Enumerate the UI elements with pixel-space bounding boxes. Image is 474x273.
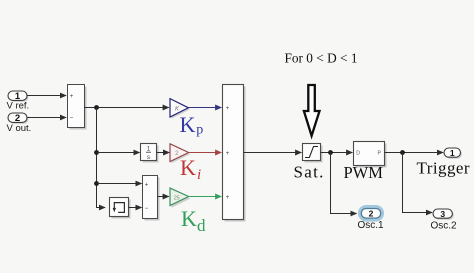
svg-text:PWM: PWM: [344, 163, 384, 182]
outport 1 (Trigger): [444, 148, 462, 159]
outport 3 (Osc.2): [433, 209, 454, 220]
svg-text:+: +: [145, 183, 149, 189]
svg-text:K: K: [181, 206, 197, 231]
wire memory to sum2 bottom input: [129, 207, 142, 209]
svg-text:d: d: [197, 216, 206, 235]
wire PWM to Trigger: [385, 152, 444, 154]
svg-text:25: 25: [174, 195, 180, 201]
svg-text:V ref.: V ref.: [7, 101, 30, 112]
svg-text:+: +: [226, 151, 230, 157]
wire sum1 output to Kp gain: [84, 107, 169, 109]
sum block S2 (derivative difference): [143, 176, 160, 221]
wire saturation to PWM: [321, 152, 353, 154]
node after saturation: [328, 150, 333, 155]
svg-text:K: K: [180, 112, 196, 137]
wire inport2 to sum1: [27, 117, 66, 119]
node after PWM: [400, 150, 405, 155]
svg-text:+: +: [70, 94, 74, 100]
label Ki: [180, 155, 201, 183]
wire inport1 to sum1: [27, 95, 66, 97]
gain Kd (triangle): [170, 188, 190, 208]
node after sum1: [94, 105, 99, 110]
annotation hollow arrow: [304, 85, 320, 136]
PWM subsystem block: [354, 142, 387, 168]
svg-text:Trigger: Trigger: [417, 159, 471, 178]
outport 2 (Osc.1, selected): [360, 207, 382, 220]
svg-text:For 0 < D < 1: For 0 < D < 1: [285, 51, 358, 66]
memory block: [110, 198, 131, 219]
svg-text:K: K: [180, 155, 196, 180]
wire sum2 to Kd gain: [158, 196, 169, 198]
svg-text:V out.: V out.: [7, 123, 32, 134]
svg-text:p: p: [196, 123, 203, 138]
wire sum3 to saturation: [244, 152, 302, 154]
svg-text:+: +: [226, 195, 230, 201]
gain Ki (triangle): [170, 144, 190, 164]
svg-text:+: +: [226, 106, 230, 112]
inport 1 (V ref.): [8, 91, 29, 102]
label Kp: [180, 112, 204, 138]
svg-text:3: 3: [440, 209, 445, 219]
svg-text:Osc.1: Osc.1: [358, 220, 385, 231]
svg-text:D: D: [356, 151, 360, 157]
wire node to Osc.2: [403, 153, 433, 213]
label Kd: [181, 206, 206, 235]
svg-text:Sat.: Sat.: [294, 163, 325, 182]
wire Ki to sum3: [189, 152, 222, 154]
sum block S3 (3-input): [223, 85, 246, 222]
wire trunk down: [97, 108, 106, 208]
svg-text:i: i: [197, 167, 201, 183]
sum block S1: [68, 85, 87, 130]
wire Kp to sum3: [188, 107, 221, 109]
gain Kp (triangle): [170, 99, 190, 119]
wire Kd to sum3: [189, 196, 222, 198]
svg-text:s: s: [147, 155, 150, 161]
wire to sum2 top input: [97, 183, 142, 185]
svg-text:Osc.2: Osc.2: [431, 221, 458, 232]
wire node to Osc.1: [331, 153, 357, 214]
inport 2 (V out.): [8, 113, 29, 124]
node to sum2 branch: [94, 181, 99, 186]
svg-text:1: 1: [450, 148, 455, 158]
wire to integrator: [97, 152, 140, 154]
integrator block 1/s: [141, 144, 159, 163]
svg-text:P: P: [378, 151, 382, 157]
node to integrator branch: [94, 150, 99, 155]
wire integrator to Ki gain: [157, 152, 170, 154]
svg-text:−: −: [145, 206, 149, 212]
svg-text:−: −: [70, 116, 74, 122]
saturation block: [303, 144, 323, 163]
svg-text:2: 2: [369, 209, 374, 219]
